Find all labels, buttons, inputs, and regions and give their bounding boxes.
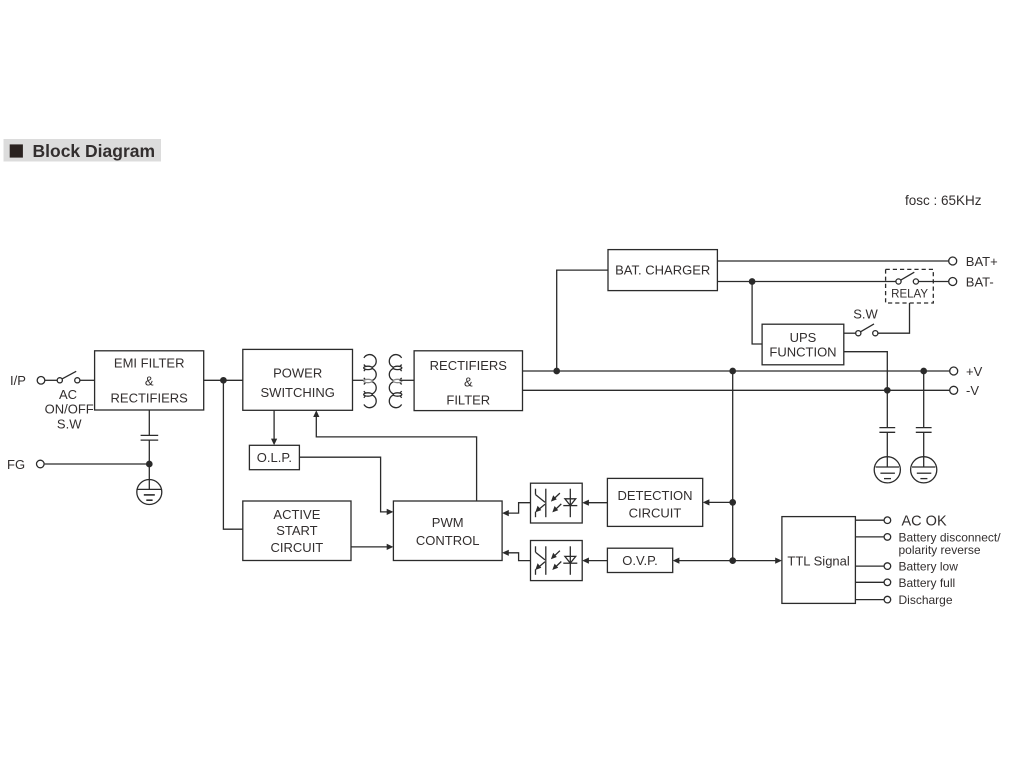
node junction dot after EMI [221, 378, 226, 383]
svg-text:+V: +V [966, 364, 983, 379]
svg-text:S.W: S.W [57, 416, 82, 431]
transformer T1 primary coil [364, 355, 377, 408]
wire POWER SWITCHING to transformer [353, 379, 367, 381]
wire TTL output Battery disconnect [855, 536, 884, 538]
node junction dot +V at detection branch [730, 368, 735, 373]
node junction dot +V at output cap [921, 368, 926, 373]
block EMI FILTER & RECTIFIERS [95, 351, 204, 410]
svg-text:BAT-: BAT- [966, 274, 994, 289]
svg-text:FILTER: FILTER [446, 392, 490, 407]
svg-text:EMI FILTER: EMI FILTER [114, 356, 185, 371]
wire UPS FUNCTION down to -V junction [844, 352, 888, 391]
wire O.V.P. to optocoupler U2 with arrow [582, 558, 607, 564]
wire O.L.P. to PWM CONTROL with arrow [299, 457, 393, 515]
wire TTL output Battery full [855, 581, 884, 583]
node junction dot FG [147, 461, 152, 466]
node junction dot at detection feed [730, 500, 735, 505]
relay RELAY (dashed enclosure with contact) [886, 269, 934, 303]
wire junction to earth ground [148, 464, 150, 489]
wire into O.V.P. with arrow [673, 558, 733, 564]
node terminal Battery full [884, 576, 955, 590]
wire junction down to ACTIVE START CIRCUIT [223, 380, 242, 529]
svg-text:O.L.P.: O.L.P. [257, 450, 292, 465]
block POWER SWITCHING [243, 349, 353, 410]
svg-text:S.W: S.W [853, 307, 878, 322]
node junction dot BAT- [749, 279, 754, 284]
block UPS FUNCTION [762, 324, 844, 365]
svg-text:Battery low: Battery low [899, 560, 959, 574]
optocoupler U2 [531, 541, 583, 581]
svg-text:TTL Signal: TTL Signal [787, 553, 849, 568]
node junction dot at OVP feed [730, 558, 735, 563]
svg-text:I/P: I/P [10, 373, 26, 388]
svg-text:POWER: POWER [273, 365, 322, 380]
block BAT. CHARGER [608, 250, 717, 291]
svg-text:DETECTION: DETECTION [617, 488, 692, 503]
wire BAT+ line [717, 260, 948, 262]
wire POWER SWITCHING down to O.L.P. with arrow [271, 410, 277, 445]
svg-text:O.V.P.: O.V.P. [622, 553, 657, 568]
wire S.W up to relay [878, 303, 910, 333]
ground earth symbol under C2 [911, 457, 937, 483]
svg-text:START: START [276, 523, 317, 538]
svg-text:BAT+: BAT+ [966, 254, 998, 269]
ground earth symbol under C1 [874, 457, 900, 483]
wire FG to capacitor junction [45, 463, 150, 465]
wire TTL output Battery low [855, 565, 884, 567]
switch S.W (UPS) [844, 307, 879, 336]
wire +V bus [523, 370, 950, 372]
wire TTL output Discharge [855, 599, 884, 601]
node terminal Battery low [884, 560, 958, 574]
svg-text:CIRCUIT: CIRCUIT [629, 506, 682, 521]
node terminal Discharge [884, 593, 953, 607]
wire TTL output AC OK [855, 519, 884, 521]
wire EMI to POWER SWITCHING [204, 379, 243, 381]
node I/P terminal [10, 373, 45, 388]
transformer T1 secondary coil [389, 355, 402, 408]
node terminal Battery disconnect/polarity reverse [884, 530, 1001, 557]
svg-text:Block Diagram: Block Diagram [33, 141, 156, 161]
svg-text:ON/OFF: ON/OFF [45, 402, 94, 417]
wire optocoupler U1 to PWM CONTROL with arrow [502, 503, 530, 517]
block PWM CONTROL [393, 501, 502, 561]
block ACTIVE START CIRCUIT [243, 501, 351, 561]
wire switch to EMI block [80, 379, 95, 381]
svg-text:FUNCTION: FUNCTION [769, 345, 836, 360]
svg-text:AC OK: AC OK [902, 513, 947, 529]
svg-text:CIRCUIT: CIRCUIT [271, 540, 324, 555]
wire ACTIVE START to PWM CONTROL with arrow [351, 544, 393, 550]
wire -V bus [523, 389, 950, 391]
wire relay to BAT- terminal [919, 281, 949, 283]
switch AC ON/OFF S.W [45, 371, 94, 431]
wire BAT. CHARGER left down to +V bus [557, 270, 608, 371]
wire optocoupler U2 to PWM CONTROL with arrow [502, 550, 530, 561]
svg-text:BAT. CHARGER: BAT. CHARGER [615, 263, 710, 278]
node +V terminal [950, 364, 983, 379]
node BAT+ terminal [949, 254, 998, 269]
node -V terminal [950, 383, 980, 398]
svg-text:FG: FG [7, 457, 25, 472]
section title bar [4, 139, 162, 162]
svg-text:fosc : 65KHz: fosc : 65KHz [905, 193, 982, 208]
node FG terminal [7, 457, 44, 472]
block RECTIFIERS & FILTER [414, 351, 522, 411]
node terminal AC OK [884, 513, 947, 529]
wire transformer to RECTIFIERS & FILTER [400, 379, 415, 381]
svg-text:ACTIVE: ACTIVE [273, 507, 320, 522]
svg-text:&: & [145, 374, 154, 389]
svg-text:RELAY: RELAY [891, 289, 928, 301]
block TTL Signal [782, 517, 856, 604]
wire into TTL Signal with arrow [733, 558, 782, 564]
svg-text:CONTROL: CONTROL [416, 533, 480, 548]
wire DETECTION CIRCUIT to optocoupler U1 with arrow [582, 500, 607, 506]
svg-text:AC: AC [59, 387, 77, 402]
capacitor C1 (output to earth, left) [879, 390, 895, 467]
svg-text:PWM: PWM [432, 515, 464, 530]
wire BAT- junction down to UPS FUNCTION [752, 282, 762, 345]
ground earth symbol left [137, 480, 162, 505]
block O.V.P. [607, 548, 672, 572]
capacitor under EMI (Y-cap) [141, 410, 159, 464]
svg-text:RECTIFIERS: RECTIFIERS [111, 391, 189, 406]
node junction dot +V at charger branch [554, 368, 559, 373]
svg-text:SWITCHING: SWITCHING [261, 385, 335, 400]
wire +V branch down to detection/OVP [732, 371, 734, 561]
svg-text:Battery full: Battery full [899, 576, 956, 590]
capacitor C2 (output to earth, right) [916, 371, 932, 467]
svg-text:-V: -V [966, 383, 979, 398]
wire feedback up into POWER SWITCHING with arrow [313, 410, 476, 501]
wire BAT- line to relay [717, 281, 896, 283]
svg-text:RECTIFIERS: RECTIFIERS [430, 358, 508, 373]
wire into DETECTION CIRCUIT with arrow [703, 499, 733, 505]
block O.L.P. [249, 445, 299, 469]
node junction dot -V [885, 388, 890, 393]
node BAT- terminal [949, 274, 994, 289]
block DETECTION CIRCUIT [607, 478, 702, 526]
svg-text:polarity reverse: polarity reverse [899, 543, 981, 557]
svg-text:&: & [464, 375, 473, 390]
svg-text:Discharge: Discharge [899, 593, 953, 607]
wire I/P to switch [45, 379, 57, 381]
svg-text:UPS: UPS [790, 330, 817, 345]
optocoupler U1 [531, 483, 583, 523]
